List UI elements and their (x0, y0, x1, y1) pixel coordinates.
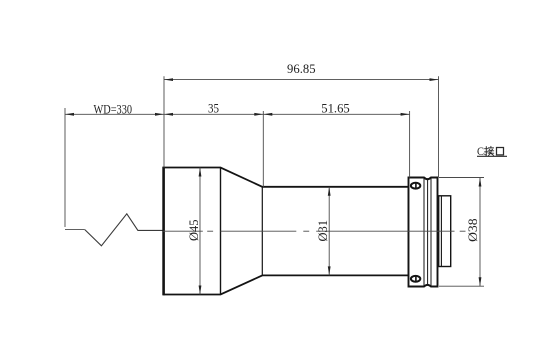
C-mount thread barrel (439, 196, 451, 267)
centerline axis dash 1 (163, 230, 203, 232)
dim line 51.65 (263, 113, 409, 115)
extension line dia38 top (439, 177, 484, 179)
break zigzag (85, 214, 163, 246)
extension line flange left (409, 111, 411, 178)
lens body outline (164, 168, 409, 295)
centerline axis dash 2 (221, 230, 297, 232)
centerline axis dash 3 (316, 230, 454, 232)
C-mount collar line (440, 196, 442, 266)
svg-text:Ø31: Ø31 (315, 220, 330, 242)
svg-text:Ø38: Ø38 (465, 218, 480, 242)
centerline dot 3 (460, 230, 466, 232)
extension line front face (163, 76, 165, 167)
extension line cone end (262, 111, 264, 187)
dim line 96.85 (164, 79, 439, 81)
centerline dot 1 (207, 230, 213, 232)
flange ring body (409, 178, 438, 287)
dim line dia45 (199, 168, 201, 295)
barrel-cone joint line (220, 168, 222, 295)
extension line dia38 bottom (439, 285, 484, 287)
front face (162, 167, 165, 295)
groove line 3 (430, 178, 432, 285)
svg-text:96.85: 96.85 (287, 61, 316, 76)
dim line dia38 (479, 178, 481, 287)
groove line 2 (427, 180, 429, 284)
label C-mount: glyph jie (drawn) (485, 146, 494, 155)
centerline left segment (65, 229, 85, 231)
dim line 35 (164, 113, 263, 115)
cone-tube joint line (261, 187, 263, 276)
set screw top (411, 183, 420, 189)
dim line dia31 (328, 187, 330, 276)
svg-text:Ø45: Ø45 (186, 220, 201, 242)
svg-text:51.65: 51.65 (321, 101, 350, 116)
extension line WD left (64, 108, 66, 227)
label C-mount: glyph kou (drawn) (497, 148, 504, 155)
label underline (477, 155, 507, 157)
extension line rear (438, 76, 440, 177)
groove line 1 (423, 178, 425, 285)
svg-text:WD=330: WD=330 (94, 101, 133, 116)
centerline dot 2 (303, 230, 309, 232)
svg-text:35: 35 (208, 101, 219, 116)
dim line WD=330 (65, 113, 164, 115)
set screw bottom (411, 276, 420, 282)
